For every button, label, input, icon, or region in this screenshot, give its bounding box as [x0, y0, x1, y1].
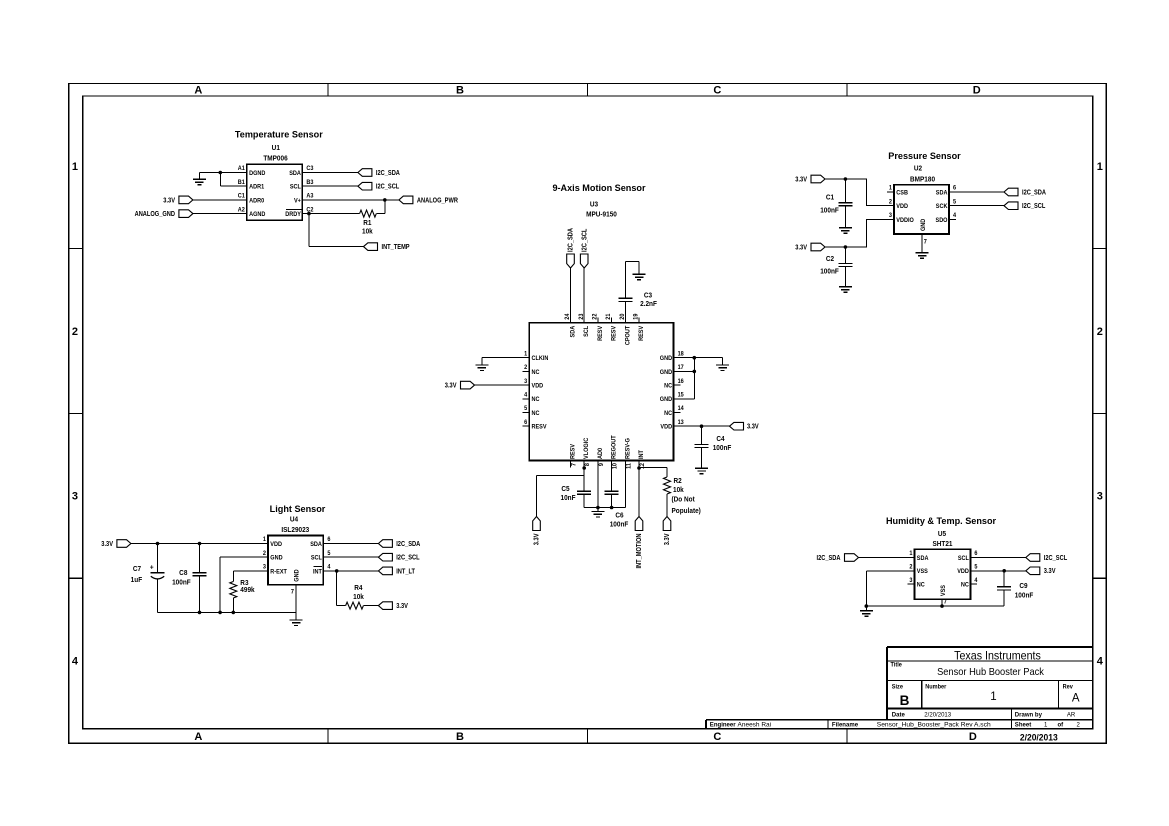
svg-text:B: B — [900, 693, 910, 708]
svg-text:2: 2 — [1077, 721, 1081, 728]
svg-text:NC: NC — [532, 397, 541, 403]
svg-text:B: B — [456, 731, 464, 743]
svg-text:100nF: 100nF — [713, 445, 732, 452]
svg-text:B1: B1 — [238, 180, 246, 186]
ground at U5 — [860, 606, 873, 616]
capacitor C8 — [172, 544, 206, 613]
svg-text:3.3V: 3.3V — [533, 533, 541, 545]
svg-text:1: 1 — [1044, 721, 1048, 728]
svg-text:2: 2 — [72, 326, 78, 338]
svg-text:VDD: VDD — [532, 383, 544, 389]
wire VDD to 3.3V U5 — [970, 570, 1025, 572]
svg-text:ISL29023: ISL29023 — [281, 527, 309, 534]
wire 3.3V to VDDIO pin 3 — [825, 219, 894, 247]
svg-text:NC: NC — [961, 582, 970, 588]
svg-text:BMP180: BMP180 — [910, 176, 935, 183]
svg-text:Drawn by: Drawn by — [1015, 711, 1043, 718]
port I2C_SCL at U2 — [1004, 202, 1045, 210]
wire DGND to ADR1 — [199, 173, 247, 187]
svg-text:SDA: SDA — [289, 171, 301, 177]
wire CLKIN to ground — [482, 358, 529, 365]
svg-text:1: 1 — [1097, 161, 1103, 173]
wire GND bus vertical — [674, 358, 695, 399]
wire SDA to I2C_SDA U2 — [949, 191, 1004, 193]
svg-text:VSS: VSS — [917, 569, 928, 575]
svg-text:RESV: RESV — [639, 326, 645, 341]
svg-text:AD0: AD0 — [598, 447, 604, 459]
pin 7 VSS stub U5 — [942, 599, 948, 606]
svg-text:U2: U2 — [914, 165, 922, 172]
capacitor C5 — [560, 486, 591, 508]
svg-text:I2C_SDA: I2C_SDA — [376, 169, 400, 177]
svg-text:14: 14 — [678, 406, 685, 412]
junction C7 — [156, 542, 160, 546]
wire INT node — [639, 461, 667, 517]
svg-text:3.3V: 3.3V — [747, 423, 759, 431]
svg-text:Engineer: Engineer — [710, 721, 736, 728]
port I2C_SCL vertical at U3 — [580, 229, 588, 268]
svg-text:Title: Title — [891, 662, 903, 668]
svg-text:10k: 10k — [673, 487, 684, 494]
svg-text:NC: NC — [532, 370, 541, 376]
svg-text:C3: C3 — [644, 292, 652, 299]
svg-text:GND: GND — [921, 218, 927, 231]
svg-text:499k: 499k — [240, 587, 255, 594]
svg-text:NC: NC — [917, 582, 926, 588]
svg-text:I2C_SDA: I2C_SDA — [1022, 189, 1046, 197]
wire ground rail U4 — [158, 611, 297, 613]
grid reference numbers left — [72, 161, 79, 668]
svg-text:CPOUT: CPOUT — [625, 325, 631, 345]
svg-text:3.3V: 3.3V — [101, 540, 113, 548]
power flag 3.3V at U1 ADR0 — [163, 196, 193, 204]
svg-text:NC: NC — [664, 411, 673, 417]
junction C2 — [844, 245, 848, 249]
svg-text:C1: C1 — [238, 193, 246, 199]
svg-text:100nF: 100nF — [820, 268, 839, 275]
title block Size Number Rev — [892, 684, 1080, 708]
svg-text:10k: 10k — [353, 594, 364, 601]
ground at C4 — [695, 468, 708, 474]
wire VLOGIC node — [537, 461, 585, 517]
svg-text:9-Axis Motion Sensor: 9-Axis Motion Sensor — [552, 183, 645, 193]
svg-text:INT: INT — [639, 450, 645, 459]
wire DRDY node — [302, 213, 359, 215]
svg-text:3: 3 — [72, 491, 78, 503]
svg-text:10k: 10k — [362, 228, 373, 235]
svg-text:VDD: VDD — [896, 204, 908, 210]
svg-text:SCL: SCL — [958, 556, 969, 562]
capacitor C6 — [605, 491, 629, 528]
svg-text:A: A — [194, 731, 202, 743]
wire REGOUT node — [611, 461, 613, 492]
ground at U1 DGND — [193, 173, 206, 185]
svg-text:RESV: RESV — [532, 424, 547, 430]
IC U3 reference — [586, 201, 617, 218]
pin stubs NC top U3 — [598, 317, 639, 323]
svg-text:3.3V: 3.3V — [1044, 568, 1056, 576]
svg-text:1: 1 — [72, 161, 78, 173]
svg-text:VLOGIC: VLOGIC — [584, 437, 590, 459]
svg-text:1uF: 1uF — [131, 577, 142, 584]
svg-text:B: B — [456, 85, 464, 97]
svg-text:VDD: VDD — [957, 569, 969, 575]
port I2C_SDA at U5 — [816, 554, 858, 562]
date in bottom strip — [1020, 732, 1058, 743]
junction AD0 rail — [596, 506, 600, 510]
capacitor C3 — [618, 262, 657, 323]
svg-text:ANALOG_GND: ANALOG_GND — [135, 210, 176, 218]
ground at CLKIN — [475, 365, 488, 371]
svg-text:R2: R2 — [674, 478, 682, 485]
section title Light Sensor — [270, 504, 326, 514]
svg-text:Humidity & Temp. Sensor: Humidity & Temp. Sensor — [886, 516, 996, 526]
svg-text:VDD: VDD — [270, 542, 282, 548]
ground at U3 bottom rail — [591, 508, 604, 518]
svg-text:RESV-G: RESV-G — [625, 438, 631, 459]
svg-text:C8: C8 — [179, 570, 187, 577]
svg-text:Rev: Rev — [1063, 684, 1074, 690]
svg-text:18: 18 — [678, 351, 685, 357]
wire 3.3V to VDD pin 2 — [825, 179, 894, 206]
wire VDD 13 to 3.3V — [674, 425, 730, 427]
svg-text:U3: U3 — [590, 201, 598, 208]
junction GND18 — [693, 356, 697, 360]
wire GND 18 to ground — [674, 358, 723, 365]
wire SCK to I2C_SCL U2 — [949, 205, 1004, 207]
svg-text:C2: C2 — [826, 256, 834, 263]
power flag 3.3V upper at U2 — [795, 175, 825, 183]
pin stubs NC right U3 — [674, 385, 681, 412]
wire I2C_SCL to pin 23 — [583, 268, 585, 323]
power flag 3.3V at U3 VDD 13 — [730, 422, 760, 430]
power flag 3.3V lower at U2 — [795, 243, 825, 251]
pin 7 GND stub U2 — [922, 234, 928, 253]
svg-text:100nF: 100nF — [610, 521, 629, 528]
svg-text:3.3V: 3.3V — [396, 602, 408, 610]
svg-text:C5: C5 — [561, 486, 569, 493]
IC U1 reference — [263, 145, 288, 163]
svg-text:INT_LT: INT_LT — [396, 568, 415, 576]
svg-text:ADR1: ADR1 — [249, 184, 265, 190]
svg-text:Temperature Sensor: Temperature Sensor — [235, 129, 323, 139]
svg-text:I2C_SCL: I2C_SCL — [376, 183, 399, 191]
svg-text:A: A — [1072, 692, 1080, 704]
title block Date row — [892, 711, 1076, 718]
svg-text:17: 17 — [678, 365, 685, 371]
port INT_MOTION — [635, 517, 643, 569]
wire ANALOG_GND to AGND — [193, 213, 247, 215]
svg-text:A: A — [194, 85, 202, 97]
svg-text:A2: A2 — [238, 207, 246, 213]
svg-text:CSB: CSB — [896, 190, 908, 196]
svg-text:GND: GND — [660, 356, 673, 362]
svg-text:4: 4 — [1097, 656, 1104, 668]
wire 3.3V to ADR0 — [193, 199, 247, 201]
svg-text:D: D — [973, 85, 981, 97]
port I2C_SDA at U1 — [358, 169, 400, 177]
pin 1 stub CSB — [887, 191, 894, 193]
wire AD0 to ground rail — [597, 461, 599, 508]
port INT_LT — [378, 567, 415, 575]
svg-text:R-EXT: R-EXT — [270, 569, 287, 575]
svg-text:Number: Number — [925, 684, 947, 690]
port I2C_SCL at U1 — [358, 182, 399, 190]
svg-text:Aneesh Rai: Aneesh Rai — [738, 722, 772, 729]
svg-text:VDDIO: VDDIO — [896, 218, 914, 224]
svg-text:D: D — [969, 731, 977, 743]
junction C4 — [700, 424, 704, 428]
svg-text:3.3V: 3.3V — [795, 176, 807, 184]
power flag 3.3V at U3 VDD pin 3 — [445, 381, 475, 389]
capacitor C2 — [820, 247, 852, 287]
port ANALOG_GND — [135, 210, 193, 218]
svg-text:Pressure Sensor: Pressure Sensor — [888, 151, 961, 161]
svg-text:C3: C3 — [306, 166, 314, 172]
svg-text:A3: A3 — [306, 193, 314, 199]
svg-text:3.3V: 3.3V — [445, 382, 457, 390]
svg-text:GND: GND — [294, 569, 300, 582]
svg-text:I2C_SDA: I2C_SDA — [396, 540, 420, 548]
wire ground rail U3 — [584, 507, 625, 509]
svg-text:Light Sensor: Light Sensor — [270, 504, 326, 514]
svg-text:GND: GND — [660, 370, 673, 376]
IC U5 SHT21 body — [909, 549, 978, 599]
svg-text:SHT21: SHT21 — [932, 541, 952, 548]
grid reference letters top — [194, 85, 980, 97]
svg-text:SDA: SDA — [917, 556, 929, 562]
pin stubs NC left U3 — [522, 371, 529, 426]
wire INT to INT_LT — [323, 570, 378, 572]
svg-text:C9: C9 — [1019, 583, 1027, 590]
svg-text:Filename: Filename — [832, 721, 859, 728]
wire SCL to I2C_SCL — [302, 185, 358, 187]
svg-text:U5: U5 — [938, 531, 946, 538]
wire RESV-G to ground rail — [624, 461, 626, 508]
IC U5 reference — [932, 531, 952, 549]
junction R3 rail — [232, 611, 236, 615]
svg-text:U4: U4 — [290, 516, 298, 523]
svg-text:I2C_SCL: I2C_SCL — [396, 554, 419, 562]
capacitor C9 — [997, 571, 1033, 606]
svg-text:DGND: DGND — [249, 171, 266, 177]
pin stub RESV bottom U3 — [570, 461, 572, 468]
wire 3.3V to VDD pin 3 U3 — [475, 384, 530, 386]
svg-text:C6: C6 — [615, 512, 623, 519]
power flag 3.3V bottom left U3 — [533, 517, 541, 546]
svg-text:TMP006: TMP006 — [263, 155, 288, 162]
svg-text:INT_TEMP: INT_TEMP — [382, 243, 411, 251]
svg-text:I2C_SCL: I2C_SCL — [581, 229, 589, 252]
junction GND17 — [693, 370, 697, 374]
junction INT — [637, 466, 641, 470]
section title Humidity and Temp Sensor — [886, 516, 996, 526]
IC U4 ISL29023 body — [263, 535, 331, 584]
wire V+ to ANALOG_PWR — [302, 199, 399, 201]
svg-text:RESV: RESV — [611, 326, 617, 341]
svg-text:A1: A1 — [238, 166, 246, 172]
junction C9 — [1002, 569, 1006, 573]
power flag 3.3V at U5 — [1026, 567, 1056, 575]
svg-text:C4: C4 — [716, 436, 724, 443]
capacitor C4 — [695, 426, 732, 468]
svg-text:RESV: RESV — [570, 444, 576, 459]
junction GND rail — [218, 611, 222, 615]
svg-text:U1: U1 — [272, 145, 280, 152]
port I2C_SDA at U2 — [1004, 188, 1046, 196]
svg-text:GND: GND — [660, 397, 673, 403]
wire SCL to I2C_SCL U5 — [970, 557, 1025, 559]
svg-text:V+: V+ — [294, 198, 301, 204]
section title Temperature Sensor — [235, 129, 323, 139]
pin 3 stub NC U5 — [908, 583, 915, 585]
svg-text:SCK: SCK — [936, 204, 948, 210]
svg-text:+: + — [150, 564, 154, 571]
IC U3 MPU-9150 body — [524, 313, 684, 469]
svg-text:SDA: SDA — [310, 542, 322, 548]
power flag 3.3V bottom right U3 — [663, 517, 671, 546]
svg-text:I2C_SDA: I2C_SDA — [816, 554, 840, 562]
svg-text:I2C_SCL: I2C_SCL — [1022, 203, 1045, 211]
resistor R4 — [337, 571, 379, 609]
ground at U4 — [290, 612, 303, 625]
svg-text:100nF: 100nF — [820, 207, 839, 214]
svg-text:4: 4 — [72, 656, 79, 668]
resistor R2 Do Not Populate — [664, 468, 701, 517]
svg-text:ANALOG_PWR: ANALOG_PWR — [417, 197, 458, 205]
svg-text:GND: GND — [270, 555, 283, 561]
svg-text:INT: INT — [313, 569, 322, 575]
title block Title row — [891, 662, 1045, 678]
port ANALOG_PWR — [399, 196, 458, 204]
capacitor C7 polarized — [131, 544, 165, 613]
junction C6 rail — [610, 506, 614, 510]
svg-text:SCL: SCL — [290, 184, 301, 190]
port INT_TEMP — [364, 243, 411, 251]
svg-text:C: C — [713, 731, 721, 743]
svg-text:I2C_SCL: I2C_SCL — [1044, 554, 1067, 562]
junction VSS rail — [865, 604, 869, 608]
ground at C1 — [839, 228, 852, 234]
resistor R3 — [230, 571, 268, 613]
svg-text:3.3V: 3.3V — [795, 244, 807, 252]
svg-text:SCL: SCL — [584, 325, 590, 336]
wire SDA to I2C_SDA U4 — [323, 543, 378, 545]
svg-text:CLKIN: CLKIN — [532, 356, 549, 362]
svg-text:15: 15 — [678, 392, 685, 398]
svg-text:MPU-9150: MPU-9150 — [586, 211, 617, 218]
IC U2 reference — [910, 165, 935, 183]
svg-text:SDO: SDO — [936, 218, 948, 224]
svg-text:VSS: VSS — [941, 585, 947, 596]
section title 9-Axis Motion Sensor — [552, 183, 645, 193]
power flag 3.3V at U4 — [101, 540, 131, 548]
wire I2C_SDA to pin 24 — [570, 268, 572, 323]
wire GND pin 2 to rail — [220, 557, 268, 612]
junction pin 7 rail — [940, 604, 944, 608]
svg-text:2/20/2013: 2/20/2013 — [924, 711, 951, 718]
wire C3 to ground — [625, 262, 639, 275]
svg-text:SDA: SDA — [570, 325, 576, 337]
svg-text:Date: Date — [892, 711, 906, 718]
svg-text:2.2nF: 2.2nF — [640, 301, 657, 308]
capacitor C1 — [820, 179, 852, 228]
svg-text:10nF: 10nF — [560, 495, 575, 502]
pin 4 stub NC U5 — [970, 583, 977, 585]
junction C1 — [844, 177, 848, 181]
pin 4 stub SDO — [949, 218, 956, 220]
grid reference letters bottom — [194, 731, 976, 743]
svg-text:VDD: VDD — [660, 424, 672, 430]
svg-text:NC: NC — [532, 411, 541, 417]
svg-text:13: 13 — [678, 420, 685, 426]
wire SCL to I2C_SCL U4 — [323, 556, 378, 558]
junction C8 rail — [198, 611, 202, 615]
svg-text:ADR0: ADR0 — [249, 198, 265, 204]
svg-text:Texas Instruments: Texas Instruments — [954, 650, 1041, 662]
junction DRDY — [307, 212, 311, 216]
svg-text:AGND: AGND — [249, 212, 266, 218]
svg-text:SCL: SCL — [311, 555, 322, 561]
IC U4 reference — [281, 516, 309, 534]
svg-text:REGOUT: REGOUT — [611, 435, 617, 459]
port I2C_SCL at U5 — [1026, 554, 1067, 562]
svg-text:B3: B3 — [306, 180, 314, 186]
wire DRDY to INT_TEMP — [309, 214, 364, 247]
svg-text:3.3V: 3.3V — [664, 533, 672, 545]
svg-text:3.3V: 3.3V — [163, 197, 175, 205]
svg-text:AR: AR — [1067, 711, 1076, 718]
svg-text:Size: Size — [892, 684, 904, 690]
port I2C_SCL at U4 — [378, 553, 419, 561]
junction C8 — [198, 542, 202, 546]
svg-text:of: of — [1058, 721, 1065, 728]
svg-text:RESV: RESV — [598, 326, 604, 341]
svg-text:Sheet: Sheet — [1015, 721, 1032, 728]
svg-text:100nF: 100nF — [1015, 592, 1034, 599]
junction VLOGIC — [582, 466, 586, 470]
wire I2C_SDA to SDA U5 — [859, 557, 915, 559]
ground at U3 GND pins — [716, 365, 729, 371]
power flag 3.3V at R4 — [378, 602, 408, 610]
svg-text:C: C — [713, 85, 721, 97]
junction INT_LT — [335, 569, 339, 573]
wire VSS to ground — [866, 571, 914, 606]
grid reference numbers right — [1097, 161, 1104, 668]
resistor R1 — [360, 200, 385, 236]
wire SDA to I2C_SDA — [302, 172, 358, 174]
svg-text:11: 11 — [626, 462, 632, 469]
border frame — [69, 83, 1107, 743]
wire 3.3V to VDD U4 — [131, 543, 268, 545]
svg-text:100nF: 100nF — [172, 579, 191, 586]
svg-text:Sensor_Hub_Booster_Pack Rev A.: Sensor_Hub_Booster_Pack Rev A.sch — [877, 722, 991, 729]
svg-text:C1: C1 — [826, 194, 834, 201]
section title Pressure Sensor — [888, 151, 961, 161]
svg-text:1: 1 — [990, 691, 996, 703]
title block border — [706, 647, 1093, 729]
port I2C_SDA at U4 — [378, 540, 420, 548]
svg-text:Populate): Populate) — [672, 508, 701, 515]
svg-text:C7: C7 — [133, 566, 141, 573]
svg-text:R1: R1 — [363, 220, 371, 227]
IC U1 TMP006 body — [238, 164, 314, 220]
svg-text:2: 2 — [1097, 326, 1103, 338]
ground at U2 GND — [916, 253, 929, 259]
svg-text:INT_MOTION: INT_MOTION — [636, 533, 644, 568]
svg-text:NC: NC — [664, 383, 673, 389]
svg-text:I2C_SDA: I2C_SDA — [567, 228, 575, 252]
